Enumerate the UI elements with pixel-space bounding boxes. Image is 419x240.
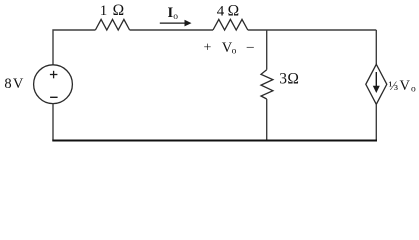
wire top-right segment (R 4ohm to node b and to right branch) bbox=[248, 29, 376, 31]
value label 4 ohm bbox=[217, 3, 239, 20]
I1 arrow (downward) bbox=[373, 72, 380, 93]
wire top-middle segment (R 1ohm to R 4ohm) bbox=[130, 29, 213, 31]
dependent current source I1 (diamond, 1/3 Vo) bbox=[366, 64, 387, 104]
svg-text:1: 1 bbox=[100, 3, 108, 19]
V1 plus mark bbox=[50, 71, 58, 79]
resistor R2 4 ohm bbox=[213, 19, 248, 30]
svg-text:Ω: Ω bbox=[113, 2, 125, 19]
value label 1/3 Vo bbox=[389, 78, 417, 95]
polarity label + Vo - for R2 bbox=[204, 40, 255, 57]
svg-text:–: – bbox=[246, 40, 255, 55]
svg-text:4: 4 bbox=[217, 4, 225, 20]
wire bottom rail (ground return) bbox=[52, 140, 377, 142]
svg-text:3: 3 bbox=[279, 70, 287, 87]
svg-text:o: o bbox=[173, 12, 178, 22]
svg-text:8: 8 bbox=[4, 76, 11, 92]
wire middle branch lower (R 3ohm to bottom rail) bbox=[266, 99, 268, 141]
resistor R1 1 ohm bbox=[95, 19, 129, 30]
value label 8 V bbox=[4, 76, 24, 92]
svg-text:⅓: ⅓ bbox=[389, 78, 399, 93]
voltage source V1 8V (independent, circle) bbox=[34, 65, 73, 104]
svg-text:V: V bbox=[400, 78, 411, 94]
V1 minus mark bbox=[50, 96, 58, 98]
wire left-bottom segment (source - to bottom rail) bbox=[52, 104, 54, 141]
value label 3 ohm bbox=[279, 70, 299, 87]
wire top-left segment (node a: source + to R 1ohm) bbox=[53, 30, 95, 65]
svg-text:Ω: Ω bbox=[228, 3, 240, 20]
svg-text:V: V bbox=[13, 76, 24, 92]
svg-text:o: o bbox=[411, 85, 416, 95]
wire right branch lower (dependent source to bottom rail) bbox=[375, 104, 377, 140]
svg-text:+: + bbox=[204, 40, 212, 55]
wire middle branch upper (node b to R 3ohm) bbox=[266, 30, 268, 70]
wire right branch upper (top rail to dependent source) bbox=[375, 30, 377, 64]
value label 1 ohm bbox=[100, 2, 124, 19]
resistor R3 3 ohm bbox=[261, 70, 273, 99]
current label Io with arrow bbox=[160, 5, 192, 26]
svg-text:Ω: Ω bbox=[287, 70, 299, 87]
svg-text:o: o bbox=[232, 47, 237, 57]
